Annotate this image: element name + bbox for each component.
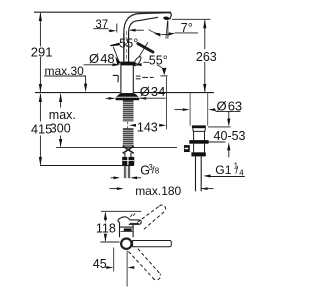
pop-up body (193, 144, 195, 153)
wire deck line (35, 92, 214, 94)
svg-text:max.: max. (49, 108, 76, 122)
plan faucet silhouette lever grip (129, 220, 142, 224)
plan faucet silhouette lever hump (118, 217, 130, 223)
spout inner profile (129, 17, 158, 62)
wire vertical reference from tick down (165, 76, 167, 129)
dimension 118 (104, 213, 106, 222)
svg-text:300: 300 (50, 122, 71, 136)
svg-text:Ø 48: Ø 48 (89, 51, 115, 66)
drain upper cylinder walls (189, 93, 191, 126)
arc 55deg second leader (157, 65, 165, 73)
lever right position knob (138, 44, 153, 52)
dimension 40-53 (208, 126, 231, 128)
extension line 45 left (113, 248, 115, 272)
svg-text:4: 4 (239, 168, 244, 177)
svg-text:143: 143 (137, 120, 158, 134)
svg-text:291: 291 (31, 45, 53, 60)
wire top reference line (spout top level) (34, 11, 171, 13)
hose connection nuts G3/8 (122, 157, 134, 165)
pop-up waste flange (192, 125, 206, 128)
lever left capsule tip (115, 57, 121, 65)
dimension 7 degree reference V lines (166, 21, 168, 39)
svg-text:/: / (235, 165, 238, 177)
wire hose end line 415 (40, 165, 134, 167)
svg-text:37: 37 (95, 19, 108, 31)
lever right stem (134, 42, 148, 64)
plan faucet body box (120, 222, 134, 237)
pop-up waste neck (193, 131, 195, 140)
hose stems (124, 153, 126, 157)
plan faucet inner band (124, 228, 132, 231)
dashes above silhouette (130, 213, 135, 217)
dashed open-lever marks right of body (136, 75, 141, 77)
lever capsule dark tip (132, 62, 137, 67)
svg-text:max.180: max.180 (135, 184, 181, 198)
svg-text:8: 8 (155, 167, 160, 176)
lever left stem (113, 47, 119, 62)
dimension 263 vertical line (172, 18, 210, 20)
dimension 415 vertical line (39, 94, 41, 122)
plan lever bar (133, 241, 172, 247)
hose tee cross (123, 146, 134, 153)
extension line 45 right (center) (126, 251, 128, 287)
pop-up rod socket (184, 145, 190, 152)
svg-text:45: 45 (93, 257, 107, 271)
arc 7 degrees (149, 30, 175, 35)
dimension 143 (129, 124, 136, 127)
spout outer profile (124, 13, 171, 63)
svg-text:40-53: 40-53 (214, 129, 246, 143)
dashed swivel bar lower (129, 249, 161, 280)
wire hose end line max300 (56, 147, 177, 149)
spout tube walls inside body region (123, 33, 125, 62)
supply hoses (123, 165, 125, 178)
drain tailpipe (195, 156, 197, 191)
tick horizontal lever-open reference (160, 75, 167, 77)
threaded shank block 1 (123, 100, 133, 121)
faucet body centerline (125, 31, 127, 62)
lever left position knob (110, 43, 120, 47)
spout outlet aerator (163, 16, 170, 20)
escutcheon base (116, 94, 140, 101)
wire 118 bottom reference (100, 241, 119, 243)
leader G3/8 arrows (111, 177, 115, 179)
svg-text:118: 118 (96, 222, 116, 236)
faucet body top band (121, 62, 134, 65)
hook detail left of body (113, 75, 118, 82)
dimension max.180 (110, 188, 118, 190)
dimension 291 vertical line (39, 13, 41, 47)
dashed swivel bar upper (137, 205, 165, 229)
faucet body (121, 62, 133, 93)
pop-up bottom coupling (191, 152, 205, 156)
svg-text:Ø 34: Ø 34 (140, 84, 166, 99)
dimension max.300 vertical line (60, 94, 62, 108)
plan circle (body outline) (121, 239, 131, 249)
svg-text:G1: G1 (215, 163, 231, 177)
lever neutral capsule (133, 56, 143, 67)
svg-text:263: 263 (196, 50, 217, 64)
threaded shank block 2 (123, 128, 133, 147)
pop-up locknut (189, 140, 208, 144)
wire 118 top reference (101, 210, 141, 212)
